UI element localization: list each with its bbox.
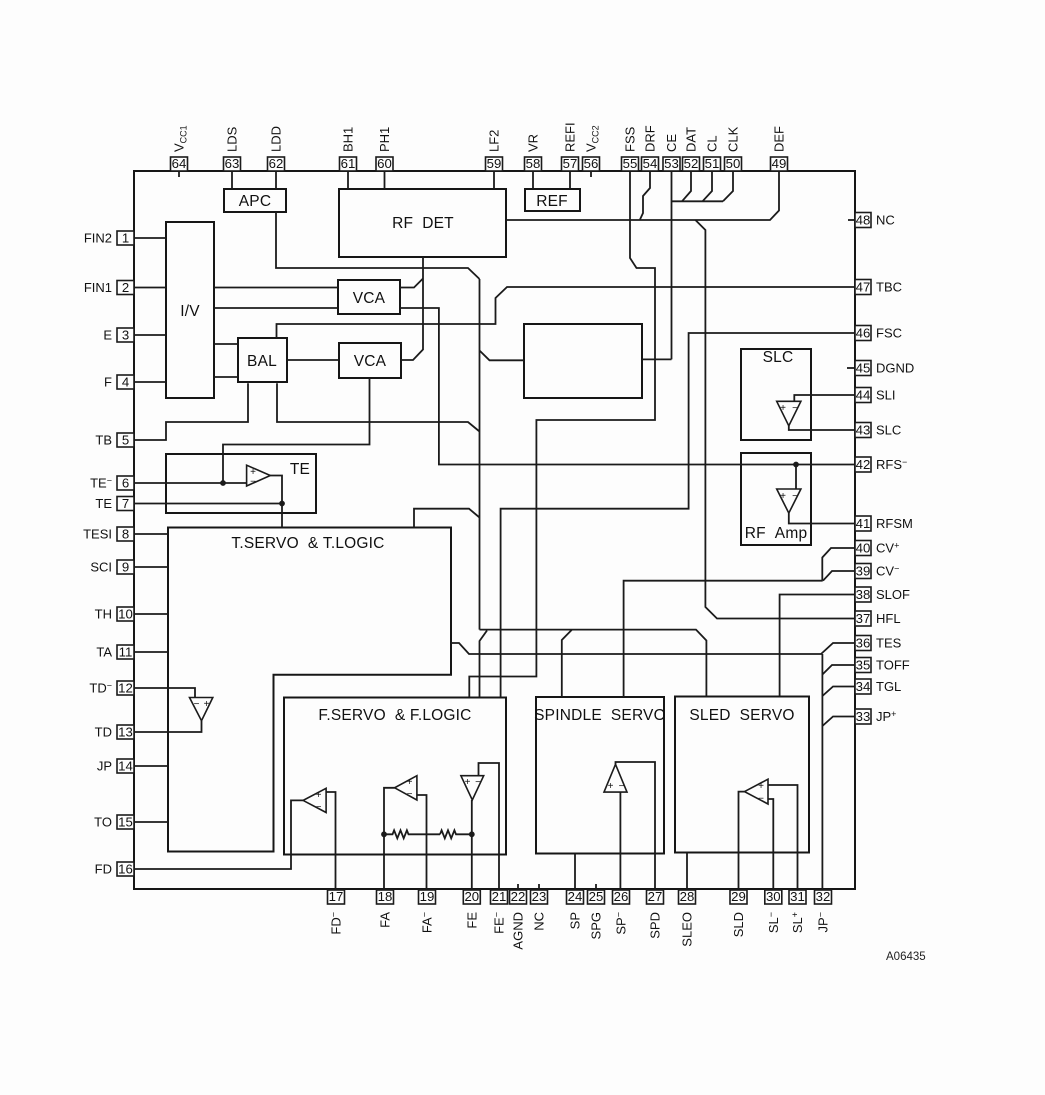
svg-text:VCA: VCA (354, 353, 387, 370)
pin 26 SP- (bottom) (613, 889, 630, 934)
svg-text:38: 38 (856, 587, 871, 602)
svg-text:9: 9 (122, 559, 129, 574)
svg-text:FD: FD (95, 862, 112, 877)
wire BH1 pin61 to RF DET (347, 171, 349, 189)
wire VCA lower output join (401, 350, 423, 361)
svg-text:RF DET: RF DET (392, 215, 454, 232)
svg-text:25: 25 (589, 889, 604, 904)
block F.SERVO & F.LOGIC (284, 698, 506, 855)
svg-text:−: − (619, 781, 625, 792)
pin 29 SLD (bottom) (730, 889, 747, 937)
wire DAT pin52 entry (682, 171, 691, 201)
pin 58 VR (top) (525, 134, 542, 171)
pin 39 CV- (right) (855, 563, 899, 578)
op-amp TE (in TE block) (247, 465, 271, 487)
wire CV+ pin40 (822, 548, 855, 581)
pin 54 DRF (top) (642, 125, 659, 171)
op-amp SLC comparator (777, 401, 801, 426)
pin 42 RFS- (right) (855, 457, 907, 472)
svg-text:35: 35 (856, 657, 871, 672)
svg-text:−: − (475, 777, 481, 788)
wire TBC pin47 to BAL control (277, 287, 856, 338)
pin 33 JP+ (right) (855, 709, 896, 724)
wire SPG pin25 stub (595, 884, 597, 890)
wire NC pin23 stub (538, 884, 540, 890)
wire center block to CE vertical (642, 358, 672, 360)
block APC (224, 189, 286, 212)
wire TH pin10 to T.SERVO (134, 613, 168, 615)
svg-text:F.SERVO & F.LOGIC: F.SERVO & F.LOGIC (318, 707, 471, 724)
wire TOFF pin35 entry (822, 665, 855, 675)
wire SLOF pin38 to SLED top (780, 595, 855, 697)
svg-text:−: − (407, 789, 413, 800)
pin 51 CL (top) (704, 135, 721, 171)
svg-text:REF: REF (536, 193, 568, 210)
wire RF DET bottom vertical (422, 257, 424, 350)
svg-text:CE: CE (664, 134, 679, 152)
svg-text:33: 33 (856, 709, 871, 724)
wire SLC op-amp output to SLC pin43 (789, 426, 855, 430)
wire TE op-amp output (270, 476, 282, 504)
wire sled op-amp output to SLD pin29 (739, 792, 745, 890)
svg-text:SPG: SPG (589, 912, 604, 939)
wire sled op-amp - input to SL- pin30 (768, 799, 773, 890)
wire JP+ pin33 entry (822, 717, 855, 727)
svg-text:I/V: I/V (180, 303, 200, 320)
svg-text:+: + (316, 790, 322, 801)
svg-text:FIN1: FIN1 (84, 280, 112, 295)
svg-text:TOFF: TOFF (876, 658, 910, 673)
svg-text:21: 21 (492, 889, 507, 904)
wire APC main vertical bus (479, 279, 481, 630)
pin 9 SCI (left) (90, 559, 134, 574)
IC package boundary (134, 171, 855, 889)
svg-text:+: + (407, 777, 413, 788)
svg-text:NC: NC (532, 912, 547, 931)
svg-text:T.SERVO & T.LOGIC: T.SERVO & T.LOGIC (231, 535, 384, 552)
pin 4 F (left) (104, 374, 134, 389)
wire AGND pin22 stub (517, 884, 519, 890)
wire bus branch to center block (480, 351, 525, 361)
wire TESI pin8 to T.SERVO (134, 533, 168, 535)
svg-text:FA: FA (378, 912, 393, 928)
wire FSS pin55 routed to F.SERVO top (469, 171, 655, 698)
svg-text:27: 27 (648, 889, 663, 904)
svg-text:31: 31 (790, 889, 805, 904)
svg-text:14: 14 (118, 758, 133, 773)
wire JP pin14 to T.SERVO (134, 765, 168, 767)
svg-text:+: + (204, 699, 210, 710)
pin 16 FD (left) (95, 861, 134, 876)
svg-text:42: 42 (856, 457, 871, 472)
resistor R2 (focus feedback) (440, 830, 472, 838)
svg-text:−: − (316, 802, 322, 813)
svg-text:50: 50 (726, 156, 741, 171)
svg-text:45: 45 (856, 360, 871, 375)
svg-text:APC: APC (239, 193, 271, 210)
block VCA (lower) (339, 343, 401, 378)
svg-text:22: 22 (511, 889, 526, 904)
svg-text:TBC: TBC (876, 280, 902, 295)
wire PH1 pin60 to RF DET (384, 171, 386, 189)
wire TD- pin12 to TD op-amp input (134, 688, 195, 698)
op-amp focus drive (F.SERVO left) (303, 788, 326, 813)
wire CL pin51 entry (703, 171, 713, 201)
op-amp sled drive (745, 779, 769, 804)
pin 23 NC (bottom) (531, 889, 548, 931)
wire bus branch to SPINDLE top (562, 630, 572, 697)
wire SLI pin44 to SLC op-amp (794, 395, 855, 401)
svg-text:63: 63 (225, 156, 240, 171)
svg-text:REFI: REFI (563, 122, 578, 152)
wire SCI pin9 to T.SERVO (134, 566, 168, 568)
svg-text:DRF: DRF (643, 125, 658, 152)
wire VCC1 pin64 stub (178, 171, 180, 177)
block TE (166, 454, 316, 513)
svg-text:54: 54 (643, 156, 658, 171)
wire focus op-amp input to FD- pin17 (326, 792, 335, 890)
pin 28 SLEO (bottom) (679, 889, 696, 946)
svg-text:RF Amp: RF Amp (745, 525, 808, 542)
wire FD pin16 to focus drive op-amp output (134, 800, 303, 869)
wire NC pin48 stub (848, 219, 855, 221)
node TE- junction (220, 480, 226, 486)
svg-text:15: 15 (118, 814, 133, 829)
wire node TE down to T.SERVO (281, 504, 283, 528)
block REF (525, 189, 580, 211)
svg-text:SLOF: SLOF (876, 587, 910, 602)
block SPINDLE SERVO (534, 697, 666, 854)
op-amp RF Amp (777, 489, 801, 513)
svg-text:AGND: AGND (511, 912, 526, 950)
svg-text:1: 1 (122, 230, 129, 245)
block VCA (upper) (338, 280, 400, 314)
pin 50 CLK (top) (725, 126, 742, 171)
svg-text:A06435: A06435 (886, 951, 926, 963)
svg-text:FSS: FSS (623, 126, 638, 152)
svg-text:36: 36 (856, 635, 871, 650)
svg-text:BH1: BH1 (341, 127, 356, 152)
svg-text:52: 52 (684, 156, 699, 171)
pin 8 TESI (left) (83, 526, 134, 541)
pin 11 TA (left) (96, 644, 134, 659)
svg-text:TH: TH (95, 607, 112, 622)
svg-text:TGL: TGL (876, 679, 901, 694)
pin 2 FIN1 (left) (84, 280, 134, 295)
pin 57 REFI (top) (562, 122, 579, 171)
svg-text:LDS: LDS (225, 126, 240, 152)
wire TB pin5 to BAL (134, 383, 248, 440)
pin 47 TBC (right) (855, 279, 902, 294)
svg-text:18: 18 (378, 889, 393, 904)
wire node RFS to RF Amp op-amp input (795, 465, 797, 490)
svg-text:3: 3 (122, 327, 129, 342)
svg-text:49: 49 (772, 156, 787, 171)
svg-text:TE: TE (95, 496, 112, 511)
svg-text:+: + (608, 781, 614, 792)
svg-text:SLEO: SLEO (680, 912, 695, 947)
svg-text:HFL: HFL (876, 611, 901, 626)
wire focus amp output to FA pin18 (384, 788, 395, 890)
svg-text:TD: TD (95, 725, 112, 740)
svg-text:SLI: SLI (876, 388, 896, 403)
svg-text:34: 34 (856, 679, 871, 694)
op-amp TD (tracking drive) (190, 698, 213, 721)
svg-text:PH1: PH1 (377, 127, 392, 152)
svg-text:39: 39 (856, 563, 871, 578)
pin 12 TD- (left) (89, 680, 134, 695)
wire I/V to VCA upper (a) (214, 287, 338, 289)
pin 43 SLC (right) (855, 422, 901, 437)
svg-text:40: 40 (856, 540, 871, 555)
pin 62 LDD (top) (268, 126, 285, 171)
svg-text:SLC: SLC (876, 423, 901, 438)
svg-text:56: 56 (584, 156, 599, 171)
block RF DET (339, 189, 506, 257)
pin 7 TE (left) (95, 496, 134, 511)
pin 60 PH1 (top) (376, 127, 393, 171)
svg-text:41: 41 (856, 516, 871, 531)
svg-text:23: 23 (532, 889, 547, 904)
svg-text:47: 47 (856, 279, 871, 294)
svg-text:FIN2: FIN2 (84, 231, 112, 246)
svg-text:TA: TA (96, 645, 112, 660)
svg-text:−: − (792, 491, 798, 502)
svg-text:TB: TB (95, 433, 112, 448)
pin 10 TH (left) (95, 606, 134, 621)
pin 61 BH1 (top) (340, 127, 357, 171)
block T.SERVO & T.LOGIC (168, 528, 451, 852)
svg-text:CLK: CLK (726, 126, 741, 152)
resistor R1 (focus feedback) (384, 830, 440, 838)
pin 20 FE (bottom) (463, 889, 480, 928)
svg-text:TO: TO (94, 815, 112, 830)
block SLED SERVO (675, 697, 809, 853)
svg-text:17: 17 (329, 889, 344, 904)
wire RF DET output / DEF net (506, 171, 779, 220)
svg-text:FSC: FSC (876, 326, 902, 341)
wire CV net to SPINDLE top (624, 581, 823, 697)
svg-text:VR: VR (526, 134, 541, 152)
svg-text:51: 51 (705, 156, 720, 171)
svg-text:+: + (758, 781, 764, 792)
svg-text:10: 10 (118, 606, 133, 621)
svg-text:43: 43 (856, 422, 871, 437)
pin 64 VCC1 (top) (171, 125, 189, 171)
svg-text:37: 37 (856, 611, 871, 626)
pin 1 FIN2 (left) (84, 230, 134, 245)
wire serial bus horizontal (pins 50-52) (672, 200, 724, 202)
svg-text:20: 20 (464, 889, 479, 904)
wire FIN1 pin2 to I/V (134, 287, 166, 289)
wire SP- pin26 to spindle op-amp input (619, 792, 621, 890)
pin 32 JP- (bottom) (815, 889, 832, 932)
pin 25 SPG (bottom) (588, 889, 605, 939)
wire bus corner to SLED top (480, 630, 707, 697)
pin 41 RFSM (right) (855, 516, 913, 531)
node RFS junction (793, 462, 799, 468)
svg-text:SPINDLE SERVO: SPINDLE SERVO (534, 707, 666, 724)
svg-text:BAL: BAL (247, 353, 277, 370)
pin 40 CV+ (right) (855, 540, 899, 555)
svg-text:DGND: DGND (876, 361, 914, 376)
pin 21 FE- (bottom) (491, 889, 508, 934)
svg-text:NC: NC (876, 213, 895, 228)
pin 18 FA (bottom) (377, 889, 394, 928)
svg-text:61: 61 (341, 156, 356, 171)
wire focus error op-amp input to FE- pin21 (479, 763, 500, 890)
wire TGL pin34 entry (822, 687, 855, 697)
pin 56 VCC2 (top) (583, 125, 601, 171)
op-amp focus amp (F.SERVO middle) (395, 776, 417, 800)
svg-text:E: E (103, 328, 112, 343)
wire sled op-amp + input to SL+ pin31 (768, 785, 798, 890)
wire SPINDLE bottom to SP pin24 (574, 854, 576, 891)
svg-text:SP: SP (568, 912, 583, 929)
block SLC (741, 349, 811, 440)
svg-text:SLD: SLD (731, 912, 746, 937)
wire bus continuation to F.SERVO top (480, 631, 488, 698)
node FE junction (469, 831, 475, 837)
svg-text:−: − (250, 477, 256, 488)
wire SLED bottom to SLEO pin28 (686, 853, 688, 891)
wire TO pin15 to T.SERVO (134, 821, 168, 823)
block RF Amp (741, 453, 811, 545)
pin 52 DAT (top) (683, 127, 700, 171)
svg-text:+: + (780, 491, 786, 502)
wire focus amp input to FA- pin19 (417, 795, 427, 890)
svg-text:62: 62 (269, 156, 284, 171)
svg-text:46: 46 (856, 325, 871, 340)
pin 53 CE (top) (663, 134, 680, 172)
svg-text:VCA: VCA (353, 290, 386, 307)
wire I/V to BAL (a) (214, 343, 238, 345)
svg-text:F: F (104, 375, 112, 390)
wire I/V to VCA upper (b) (214, 307, 338, 309)
wire LDS pin63 to APC (231, 171, 233, 189)
svg-text:SLED SERVO: SLED SERVO (689, 707, 794, 724)
wire TES pin36 from T.SERVO (451, 643, 855, 654)
wire F pin4 to I/V (134, 381, 166, 383)
pin 63 LDS (top) (224, 126, 241, 171)
svg-text:11: 11 (119, 644, 133, 659)
svg-text:SPD: SPD (648, 912, 663, 939)
pin 24 SP (bottom) (567, 889, 584, 929)
wire DGND pin45 stub (847, 367, 855, 369)
svg-text:59: 59 (487, 156, 502, 171)
svg-text:6: 6 (122, 475, 129, 490)
wire BAL to VCA lower (287, 359, 339, 361)
wire BAL to node on APC bus (277, 383, 480, 431)
svg-text:JP: JP (97, 759, 112, 774)
wire E pin3 to I/V (134, 334, 166, 336)
wire VR pin58 to REF (532, 171, 534, 189)
pin 5 TB (left) (95, 432, 134, 447)
wire TE pin7 (134, 503, 282, 505)
svg-text:4: 4 (122, 374, 129, 389)
wire VCA upper output join (400, 279, 423, 288)
svg-text:58: 58 (526, 156, 541, 171)
svg-text:TE: TE (290, 461, 310, 478)
svg-text:60: 60 (377, 156, 392, 171)
pin 46 FSC (right) (855, 325, 902, 340)
wire CLK pin50 entry (723, 171, 733, 201)
svg-text:32: 32 (816, 889, 831, 904)
svg-text:16: 16 (118, 861, 133, 876)
pin 14 JP (left) (97, 758, 134, 773)
svg-text:DAT: DAT (684, 127, 699, 152)
pin 15 TO (left) (94, 814, 134, 829)
pin 17 FD- (bottom) (328, 889, 345, 934)
svg-text:55: 55 (623, 156, 638, 171)
svg-text:64: 64 (172, 156, 187, 171)
wire VCC2 pin56 stub (590, 171, 592, 177)
pin 3 E (left) (103, 327, 134, 342)
svg-text:2: 2 (122, 280, 129, 295)
pin 30 SL- (bottom) (765, 889, 782, 933)
svg-text:30: 30 (766, 889, 781, 904)
svg-text:+: + (465, 777, 471, 788)
wire TE- pin6 to TE op-amp inverting input (134, 482, 247, 484)
pin 31 SL+ (bottom) (789, 889, 806, 933)
svg-text:13: 13 (118, 724, 133, 739)
svg-text:57: 57 (563, 156, 578, 171)
wire VCA upper to RF Amp / RFS- pin42 (400, 308, 855, 465)
wire node TE- up-and-over to VCA lower output (223, 378, 370, 483)
pin 48 NC (right) (855, 212, 895, 227)
svg-text:TES: TES (876, 636, 902, 651)
svg-text:FE: FE (464, 912, 479, 929)
block I/V converter (166, 222, 214, 398)
svg-text:44: 44 (856, 387, 871, 402)
wire APC output to vertical bus (276, 212, 480, 279)
svg-text:−: − (758, 794, 764, 805)
svg-text:28: 28 (680, 889, 695, 904)
wire LDD pin62 to APC (275, 171, 277, 189)
svg-text:TESI: TESI (83, 527, 112, 542)
svg-text:19: 19 (420, 889, 435, 904)
pin 44 SLI (right) (855, 387, 896, 402)
svg-text:5: 5 (122, 432, 129, 447)
pin 55 FSS (top) (622, 126, 639, 171)
svg-text:53: 53 (664, 156, 679, 171)
svg-text:DEF: DEF (772, 126, 787, 152)
svg-text:8: 8 (122, 526, 129, 541)
wire RF Amp output to RFSM pin41 (789, 513, 855, 523)
wire LF2 pin59 to RF DET (493, 171, 495, 189)
svg-text:LF2: LF2 (487, 130, 502, 152)
wire focus error op-amp output to FE pin20 (471, 800, 473, 890)
svg-text:LDD: LDD (269, 126, 284, 152)
wire REFI pin57 to REF (569, 171, 571, 189)
pin 35 TOFF (right) (855, 657, 910, 672)
pin 59 LF2 (top) (486, 130, 503, 172)
wire spindle op-amp output to SPD pin27 (616, 762, 656, 890)
block BAL (238, 338, 287, 382)
svg-text:29: 29 (731, 889, 746, 904)
svg-text:26: 26 (614, 889, 629, 904)
svg-text:48: 48 (856, 212, 871, 227)
wire I/V to BAL (b) (214, 376, 238, 378)
wire CV- pin39 (823, 571, 855, 581)
block unnamed (center) (524, 324, 642, 398)
pin 27 SPD (bottom) (647, 889, 664, 939)
wire TD op-amp output to pin13 (134, 721, 202, 732)
svg-text:+: + (780, 403, 786, 414)
pin 38 SLOF (right) (855, 587, 910, 602)
svg-text:12: 12 (118, 680, 133, 695)
wire T.SERVO top link to bus (414, 509, 480, 528)
